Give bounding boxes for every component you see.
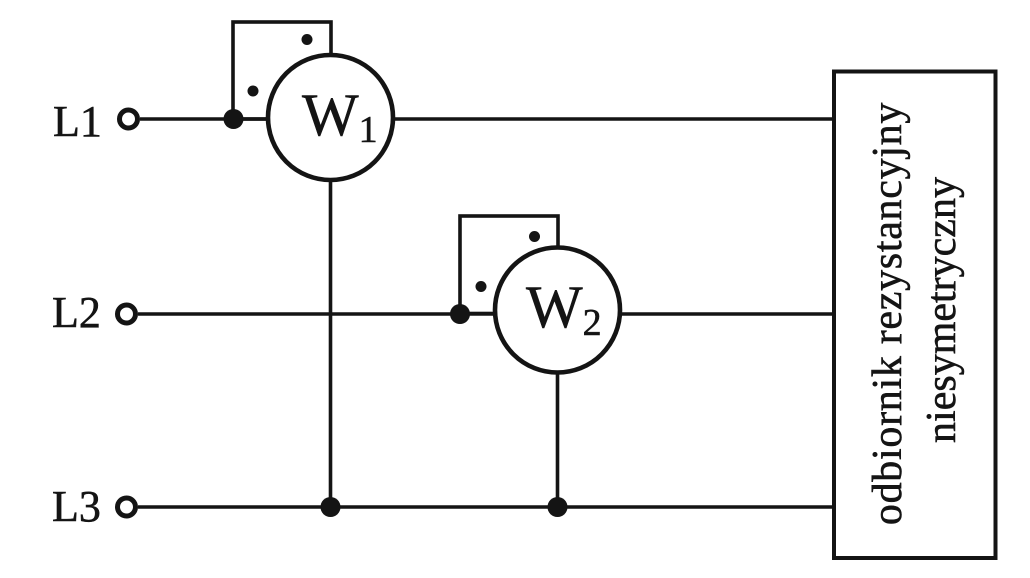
voltage coil box W2 [460,216,558,314]
wattmeter W1 [268,55,393,180]
polarity dot W1 current coil [248,86,259,97]
junction node L3 / W1 coil [321,497,341,517]
load box (odbiornik) [834,72,996,559]
polarity dot W1 voltage coil [302,34,313,45]
wire L3 [138,505,836,508]
junction node L1 / W1 [224,109,244,129]
voltage coil box W1 [233,22,331,119]
terminal L1 [120,110,138,128]
wire W1 voltage coil to L3 [329,117,333,507]
polarity dot W2 voltage coil [529,231,540,242]
junction node L2 / W2 [450,304,470,324]
wire W2 voltage coil to L3 [556,310,560,507]
svg-text:L1: L1 [53,97,102,146]
svg-text:L2: L2 [52,288,101,337]
terminal L2 [118,305,136,323]
wire L1 [140,117,836,120]
polarity dot W2 current coil [476,281,487,292]
wattmeter W2 [495,248,620,373]
wire L2 [138,312,836,315]
svg-text:L3: L3 [52,482,101,531]
svg-text:niesymetryczny: niesymetryczny [919,177,965,443]
terminal L3 [118,498,136,516]
svg-text:odbiornik rezystancyjny: odbiornik rezystancyjny [865,102,911,525]
junction node L3 / W2 coil [548,497,568,517]
